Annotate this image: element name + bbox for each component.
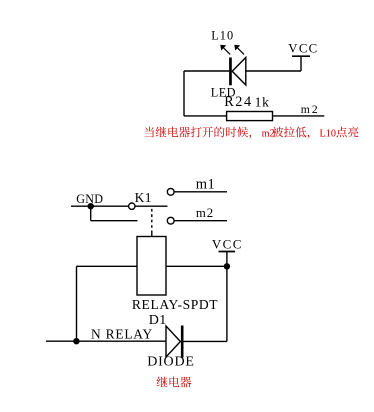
wire bbox=[91, 220, 138, 222]
LED emission arrow 1 bbox=[220, 45, 244, 55]
svg-text:m1: m1 bbox=[196, 177, 216, 193]
wire bbox=[184, 70, 229, 72]
svg-text:DIODE: DIODE bbox=[147, 354, 195, 369]
svg-text:R24: R24 bbox=[224, 94, 252, 110]
diode D1 triangle bbox=[166, 326, 180, 357]
switch K1 throw m1 contact bbox=[167, 188, 174, 195]
wire bbox=[300, 56, 302, 71]
wire bbox=[184, 340, 227, 342]
LED L10 triangle bbox=[232, 58, 246, 86]
red caption 继电器 bbox=[157, 376, 192, 387]
svg-text:RELAY-SPDT: RELAY-SPDT bbox=[132, 297, 218, 312]
svg-text:L10: L10 bbox=[320, 128, 336, 139]
wire GND net bbox=[71, 205, 129, 207]
wire m2 net top bbox=[273, 115, 325, 117]
svg-text:m2: m2 bbox=[262, 128, 275, 139]
wire m2 net bbox=[174, 220, 227, 222]
svg-text:GND: GND bbox=[76, 192, 103, 206]
switch K1 pole contact bbox=[129, 203, 135, 209]
diode D1 cathode bar bbox=[181, 326, 184, 358]
wire bbox=[226, 266, 228, 341]
resistor R24 body bbox=[227, 112, 273, 121]
wire bbox=[184, 115, 227, 117]
LED cathode bar bbox=[229, 58, 232, 86]
svg-text:N RELAY: N RELAY bbox=[91, 326, 153, 341]
wire bbox=[166, 265, 227, 267]
LED emission arrow 2 bbox=[235, 46, 244, 55]
svg-text:K1: K1 bbox=[135, 190, 152, 205]
wire bbox=[226, 252, 228, 267]
wire m1 net bbox=[174, 191, 227, 193]
junction dot VCC-relay bbox=[224, 263, 230, 269]
switch K1 arm bbox=[135, 205, 168, 207]
svg-text:1k: 1k bbox=[255, 95, 270, 110]
wire bbox=[183, 71, 185, 116]
junction dot GND bbox=[88, 203, 94, 209]
wire N RELAY net bbox=[46, 340, 166, 342]
linkage tick bbox=[151, 231, 153, 236]
svg-text:VCC: VCC bbox=[212, 237, 243, 252]
svg-text:m2: m2 bbox=[196, 206, 214, 220]
wire bbox=[76, 266, 78, 341]
power VCC top bar bbox=[292, 55, 310, 57]
svg-text:L10: L10 bbox=[211, 29, 234, 43]
power VCC bottom bar bbox=[219, 251, 236, 253]
red note line1 CJK bbox=[145, 127, 359, 140]
svg-text:VCC: VCC bbox=[288, 42, 318, 56]
wire bbox=[77, 265, 138, 267]
switch K1 throw m2 contact bbox=[167, 217, 174, 224]
relay coil body bbox=[137, 237, 166, 296]
junction dot N RELAY bbox=[73, 338, 79, 344]
wire bbox=[90, 206, 92, 221]
wire bbox=[246, 70, 301, 72]
linkage dashed bbox=[151, 209, 153, 232]
svg-text:m2: m2 bbox=[301, 103, 320, 116]
